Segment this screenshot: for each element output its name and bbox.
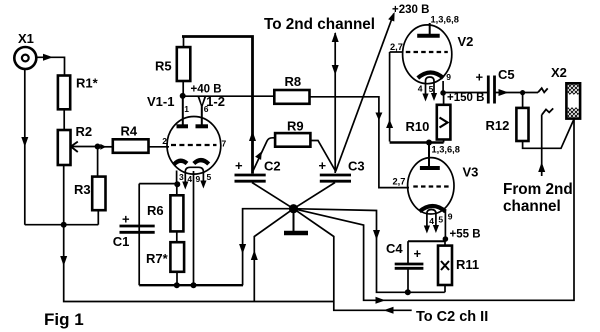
svg-text:7: 7 [222,139,227,149]
svg-text:2,7: 2,7 [390,42,403,52]
svg-text:C2: C2 [264,159,281,174]
svg-text:1: 1 [184,104,189,114]
svg-text:1,3,6,8: 1,3,6,8 [431,15,459,25]
svg-text:Fig 1: Fig 1 [44,310,84,329]
svg-text:5: 5 [438,215,443,225]
svg-text:R7*: R7* [146,251,169,266]
svg-text:To 2nd channel: To 2nd channel [264,16,375,33]
svg-text:V1-2: V1-2 [198,94,225,109]
svg-text:+230 B: +230 B [392,4,429,16]
svg-text:+: + [476,70,484,85]
svg-text:3: 3 [179,172,184,182]
svg-text:X2: X2 [551,65,567,80]
svg-text:R4: R4 [121,124,138,139]
svg-text:+: + [414,246,422,261]
svg-text:+150 B: +150 B [447,92,484,104]
svg-text:channel: channel [503,198,561,215]
svg-text:2: 2 [162,136,167,146]
svg-text:4: 4 [187,174,192,184]
svg-text:+: + [235,158,243,173]
svg-text:+40 B: +40 B [191,84,222,96]
svg-text:5: 5 [429,84,434,94]
svg-text:C4: C4 [386,241,403,256]
svg-text:From 2nd: From 2nd [503,181,573,198]
svg-text:V1-1: V1-1 [147,94,174,109]
svg-text:R2: R2 [76,124,93,139]
svg-text:R10: R10 [406,119,430,134]
svg-text:C5: C5 [498,67,515,82]
svg-text:9: 9 [448,212,453,222]
svg-text:R11: R11 [456,257,479,272]
svg-text:4: 4 [418,84,423,94]
svg-text:1,3,6,8: 1,3,6,8 [432,145,460,155]
svg-text:R9: R9 [287,119,304,134]
svg-text:4: 4 [429,216,434,226]
svg-text:9: 9 [196,174,201,184]
svg-text:5: 5 [207,172,212,182]
svg-text:C3: C3 [348,159,365,174]
svg-text:2,7: 2,7 [393,177,406,187]
svg-text:To C2 ch II: To C2 ch II [416,309,488,325]
svg-text:6: 6 [204,104,209,114]
svg-text:R3: R3 [74,182,91,197]
svg-text:R8: R8 [285,74,302,89]
svg-text:+: + [319,158,327,173]
svg-text:R5: R5 [155,59,172,74]
svg-text:R1*: R1* [76,76,99,91]
svg-text:C1: C1 [113,234,130,249]
svg-text:9: 9 [446,72,451,82]
svg-text:V2: V2 [458,34,474,49]
svg-text:R6: R6 [147,203,164,218]
svg-text:V3: V3 [463,165,479,180]
svg-text:X1: X1 [18,31,34,46]
svg-text:+55 B: +55 B [450,229,481,241]
svg-text:R12: R12 [486,118,510,133]
svg-text:+: + [122,212,130,227]
